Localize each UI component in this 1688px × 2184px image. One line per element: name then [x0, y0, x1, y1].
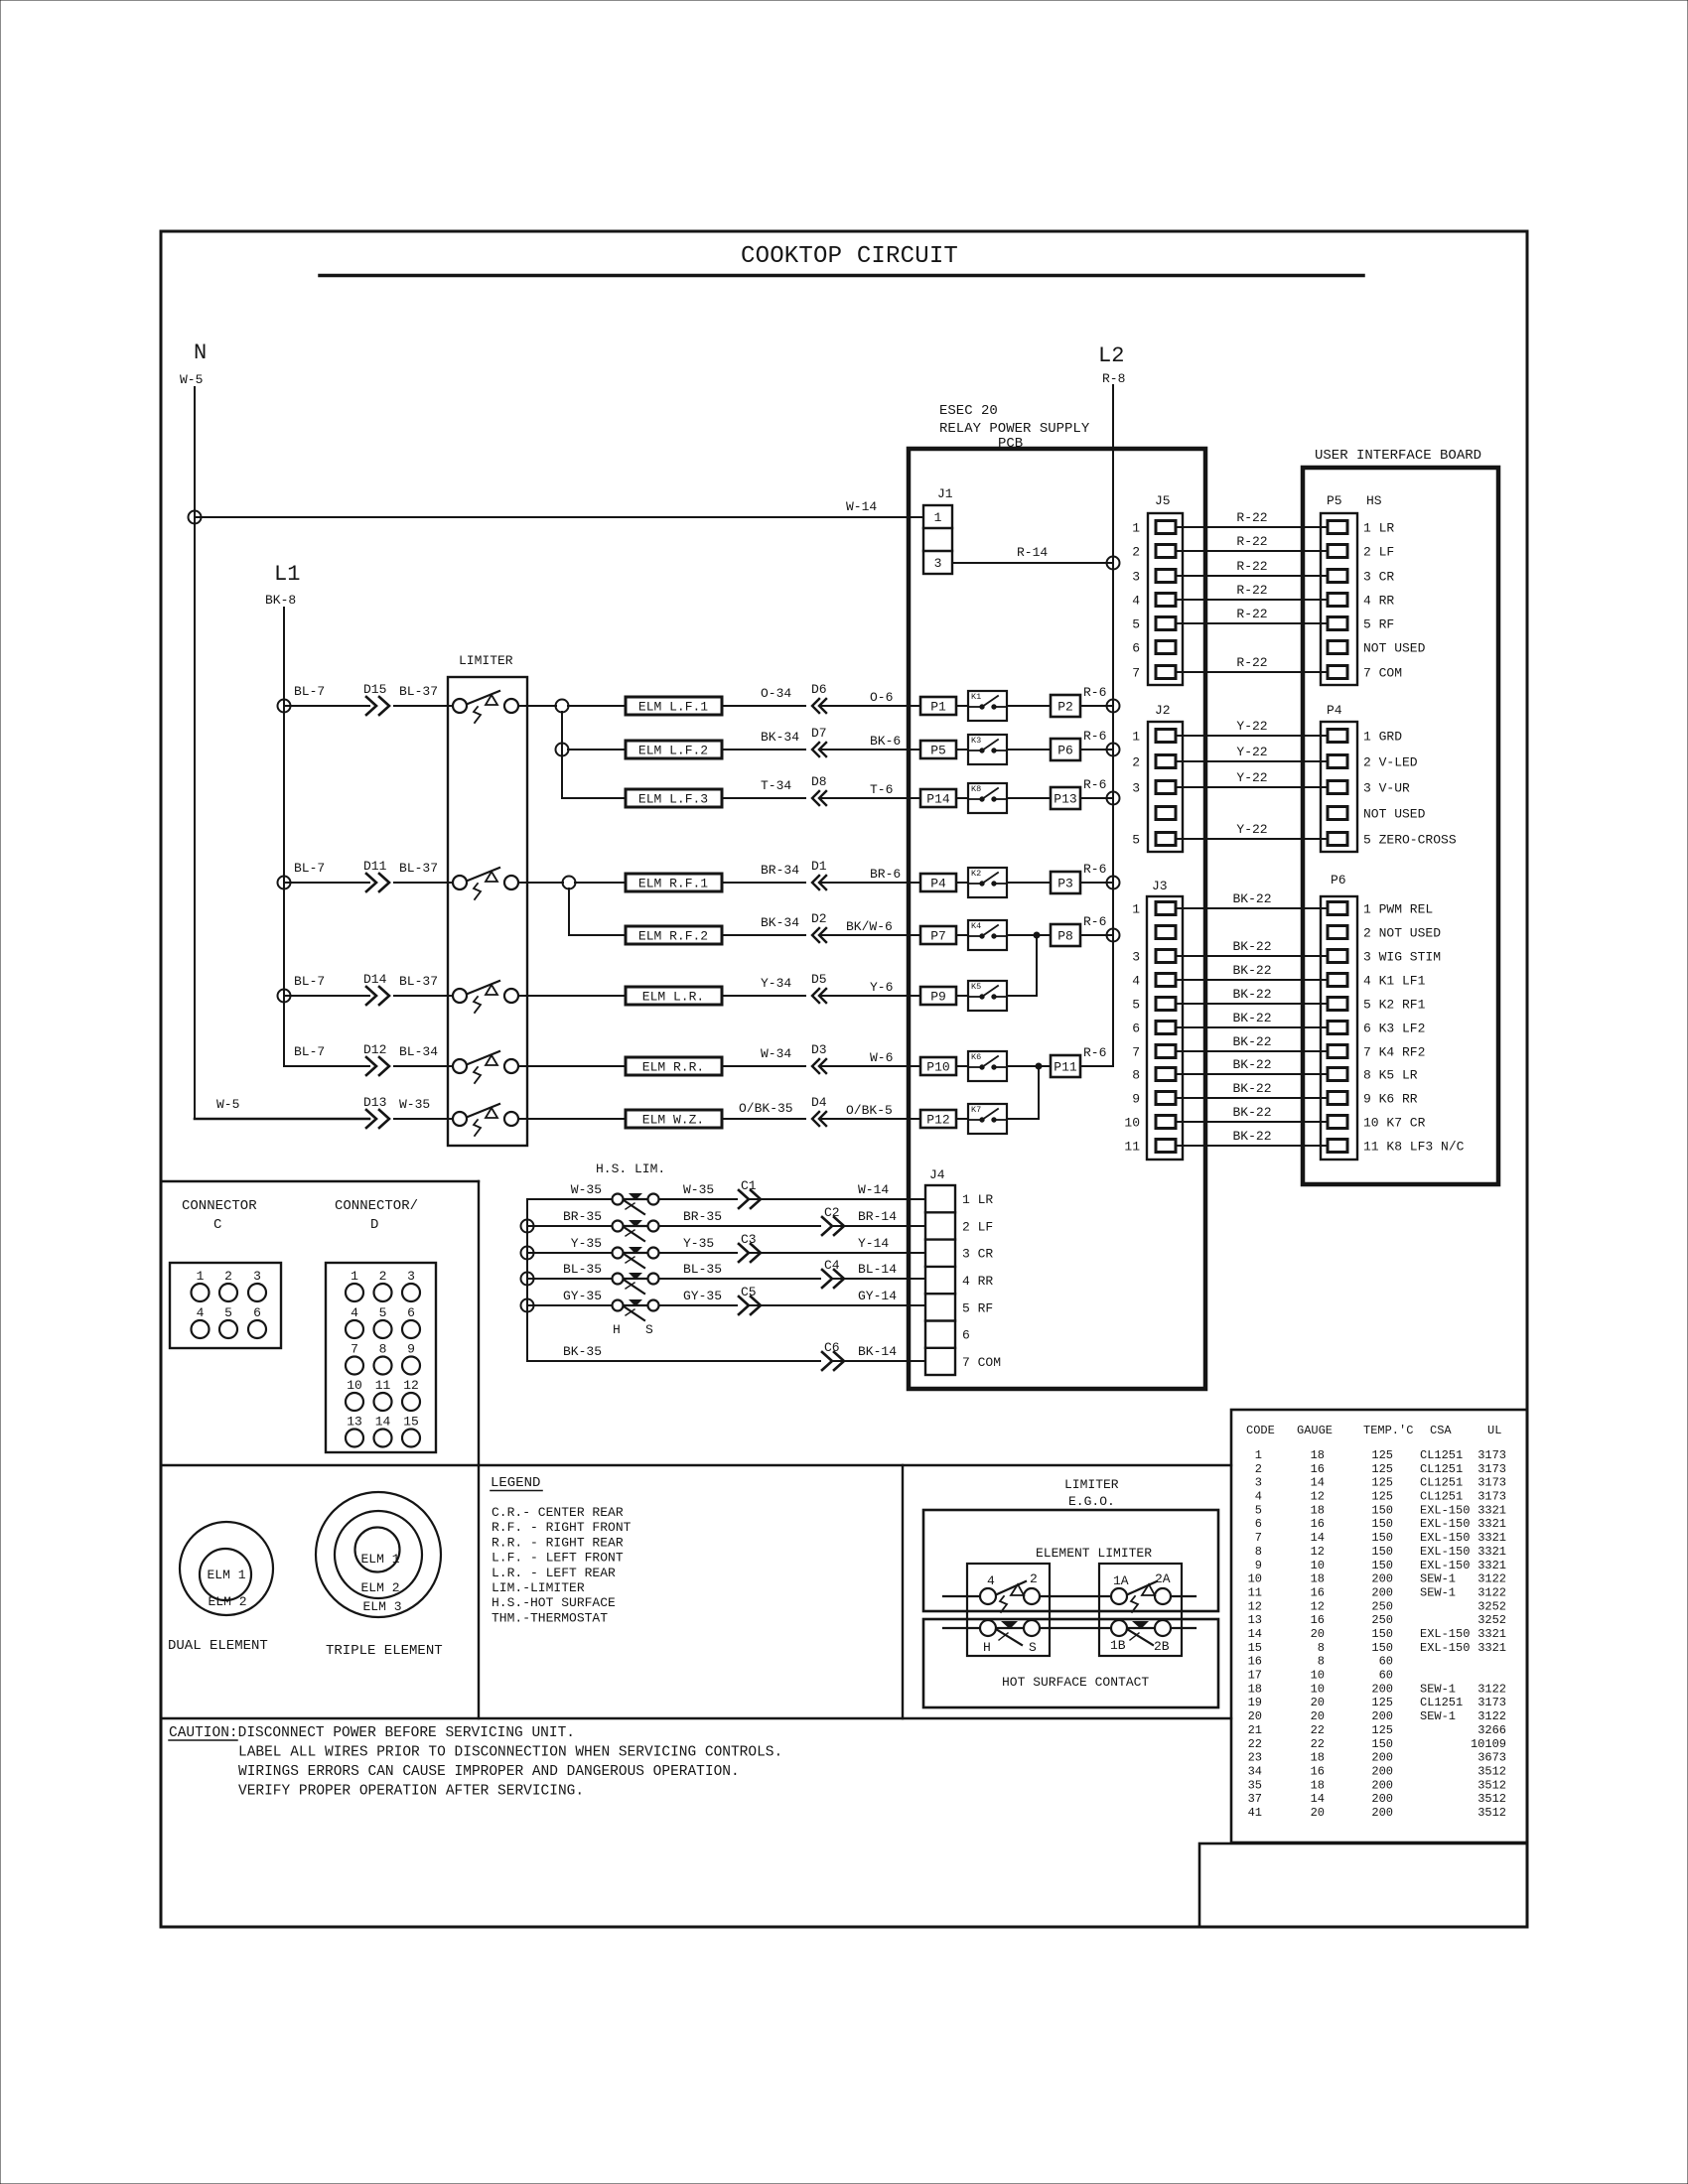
- svg-text:11 K8 LF3 N/C: 11 K8 LF3 N/C: [1363, 1140, 1465, 1155]
- junction dot K7 net: [1036, 1063, 1042, 1069]
- svg-text:SEW-1: SEW-1: [1420, 1709, 1456, 1723]
- svg-text:ELM L.F.3: ELM L.F.3: [638, 792, 708, 807]
- svg-text:P13: P13: [1054, 792, 1076, 807]
- svg-text:D2: D2: [811, 911, 827, 926]
- svg-text:4: 4: [197, 1305, 205, 1320]
- wire BL-14 into J4: [834, 1262, 925, 1279]
- node N junction to W-14: [189, 511, 202, 524]
- wire BR-34 element lead: [722, 863, 805, 883]
- wire code row 37: [1248, 1792, 1506, 1806]
- svg-text:16: 16: [1248, 1655, 1262, 1669]
- svg-text:ELEMENT LIMITER: ELEMENT LIMITER: [1036, 1546, 1152, 1561]
- svg-text:6: 6: [253, 1305, 261, 1320]
- svg-text:17: 17: [1248, 1669, 1262, 1683]
- svg-text:BL-7: BL-7: [294, 684, 325, 699]
- wire code table: [1231, 1410, 1527, 1843]
- svg-text:3122: 3122: [1477, 1572, 1506, 1586]
- inline connector C4: [822, 1258, 844, 1288]
- pin J3-3: [1132, 950, 1176, 965]
- pin J3-9: [1132, 1092, 1176, 1107]
- svg-text:D: D: [370, 1217, 378, 1233]
- svg-text:BK-22: BK-22: [1232, 891, 1271, 906]
- svg-text:T-34: T-34: [761, 778, 791, 793]
- svg-text:D8: D8: [811, 774, 827, 789]
- svg-text:R-8: R-8: [1102, 371, 1125, 386]
- connector P5: [1321, 493, 1382, 685]
- wire code row 2: [1255, 1462, 1506, 1476]
- svg-text:BL-37: BL-37: [399, 974, 438, 989]
- pin D-14: [374, 1415, 392, 1447]
- wire W-14 into J4: [751, 1182, 925, 1199]
- wire BR-35 switch to connector C2: [659, 1209, 820, 1226]
- svg-text:1: 1: [1132, 902, 1140, 917]
- pin P6-4 4 K1 LF1: [1328, 974, 1426, 989]
- svg-text:3 CR: 3 CR: [1363, 570, 1394, 585]
- svg-text:DUAL ELEMENT: DUAL ELEMENT: [168, 1638, 268, 1654]
- node branch LF2: [556, 744, 569, 756]
- svg-text:200: 200: [1371, 1806, 1393, 1820]
- pin P6-2 2 NOT USED: [1328, 926, 1441, 941]
- wire W-35 switch to connector C1: [659, 1182, 737, 1199]
- element box ELM L.F.1: [626, 697, 722, 715]
- node R-6 junction on bus at P6: [1107, 744, 1120, 756]
- LIMITER box: [448, 653, 527, 1146]
- pin P6-8 8 K5 LR: [1328, 1068, 1418, 1083]
- svg-text:6 K3 LF2: 6 K3 LF2: [1363, 1022, 1425, 1036]
- svg-text:150: 150: [1371, 1641, 1393, 1655]
- wire code row 10: [1248, 1572, 1506, 1586]
- svg-text:150: 150: [1371, 1627, 1393, 1641]
- wire Y-22 J2-5 to P4-5: [1176, 822, 1328, 839]
- svg-text:D1: D1: [811, 859, 827, 874]
- svg-text:16: 16: [1311, 1613, 1325, 1627]
- svg-text:11: 11: [375, 1378, 391, 1393]
- wire node A to ELM L.F.1: [568, 705, 626, 707]
- svg-text:200: 200: [1371, 1778, 1393, 1792]
- pin D-3: [402, 1269, 420, 1301]
- svg-text:200: 200: [1371, 1764, 1393, 1778]
- svg-text:BL-34: BL-34: [399, 1044, 438, 1059]
- svg-text:P6: P6: [1331, 873, 1346, 887]
- wire BR-35 from bus: [527, 1209, 612, 1226]
- svg-text:P9: P9: [930, 990, 946, 1005]
- element box ELM L.F.2: [626, 741, 722, 758]
- wire node D to ELM R.F.1: [575, 882, 626, 884]
- svg-text:200: 200: [1371, 1572, 1393, 1586]
- legend block: [491, 1475, 632, 1625]
- element limiter switch 4-2: [980, 1571, 1040, 1612]
- wire P14 to relay K8: [956, 797, 968, 799]
- title block box: [1199, 1843, 1527, 1927]
- svg-text:1: 1: [1132, 730, 1140, 745]
- svg-text:7 COM: 7 COM: [962, 1355, 1001, 1370]
- svg-text:BK-22: BK-22: [1232, 1081, 1271, 1096]
- svg-text:LIM.-LIMITER: LIM.-LIMITER: [492, 1580, 585, 1595]
- pin J5-3: [1132, 570, 1176, 585]
- svg-text:R.R. - RIGHT REAR: R.R. - RIGHT REAR: [492, 1535, 624, 1550]
- svg-text:3122: 3122: [1477, 1585, 1506, 1599]
- pin J5-7: [1132, 666, 1176, 681]
- svg-text:EXL-150: EXL-150: [1420, 1545, 1470, 1559]
- svg-text:16: 16: [1311, 1585, 1325, 1599]
- svg-text:EXL-150: EXL-150: [1420, 1641, 1470, 1655]
- wire code row 6: [1255, 1517, 1506, 1531]
- svg-text:4: 4: [1132, 974, 1140, 989]
- svg-text:1: 1: [351, 1269, 358, 1284]
- pin P5-5 5 RF: [1328, 617, 1394, 632]
- inline connector D3: [811, 1042, 827, 1073]
- pin D-8: [374, 1342, 392, 1375]
- node H.S. bus Y-35: [521, 1247, 534, 1260]
- svg-text:THM.-THERMOSTAT: THM.-THERMOSTAT: [492, 1610, 608, 1625]
- svg-text:BK-22: BK-22: [1232, 1057, 1271, 1072]
- terminal P4: [920, 874, 956, 891]
- svg-text:BK-34: BK-34: [761, 915, 799, 930]
- relay K1: [968, 691, 1007, 721]
- pin D-11: [374, 1378, 392, 1411]
- svg-text:COOKTOP CIRCUIT: COOKTOP CIRCUIT: [741, 243, 958, 270]
- svg-text:H.S.-HOT SURFACE: H.S.-HOT SURFACE: [492, 1595, 616, 1610]
- svg-text:C4: C4: [824, 1258, 840, 1273]
- svg-text:3252: 3252: [1477, 1599, 1506, 1613]
- pin J3-2: [1156, 926, 1176, 939]
- page border frame: [161, 231, 1527, 1927]
- node L1 branch for row ELM L.R.: [278, 990, 291, 1003]
- svg-text:CL1251: CL1251: [1420, 1696, 1463, 1709]
- svg-text:3512: 3512: [1477, 1778, 1506, 1792]
- svg-text:12: 12: [1311, 1599, 1325, 1613]
- element limiter box: [923, 1510, 1218, 1611]
- wire BK-22 J3-10 to P6-10: [1176, 1105, 1328, 1122]
- svg-text:H: H: [613, 1322, 621, 1337]
- node R-6 junction on bus at P8: [1107, 929, 1120, 942]
- wire O-6 into PCB: [820, 690, 920, 706]
- wire BK-6 into PCB: [820, 734, 920, 750]
- svg-text:5: 5: [1255, 1503, 1262, 1517]
- svg-text:10: 10: [347, 1378, 362, 1393]
- pin P5-7 7 COM: [1328, 666, 1402, 681]
- wire code row 11: [1248, 1585, 1506, 1599]
- wire code row 35: [1248, 1778, 1506, 1792]
- svg-text:Y-22: Y-22: [1236, 745, 1267, 759]
- svg-text:10: 10: [1311, 1669, 1325, 1683]
- svg-text:BK-22: BK-22: [1232, 1129, 1271, 1144]
- svg-text:5 ZERO-CROSS: 5 ZERO-CROSS: [1363, 833, 1457, 848]
- svg-text:P4: P4: [930, 877, 946, 891]
- wire W-35 from bus: [527, 1182, 612, 1199]
- svg-text:P1: P1: [930, 700, 946, 715]
- pin P5-1 1 LR: [1328, 521, 1394, 536]
- svg-text:14: 14: [1311, 1476, 1325, 1490]
- wire BK-22 J3-4 to P6-4: [1176, 963, 1328, 980]
- wire code row 21: [1248, 1723, 1506, 1737]
- wire P4 to relay K2: [956, 882, 968, 884]
- node R-6 junction on bus at P3: [1107, 877, 1120, 889]
- svg-text:S: S: [1029, 1640, 1037, 1655]
- svg-text:8: 8: [1318, 1655, 1325, 1669]
- wire O/BK-5 into PCB: [820, 1103, 920, 1119]
- svg-text:CL1251: CL1251: [1420, 1448, 1463, 1462]
- svg-text:R-22: R-22: [1236, 559, 1267, 574]
- pin C-2: [219, 1269, 237, 1301]
- svg-text:Y-22: Y-22: [1236, 822, 1267, 837]
- pin D-15: [402, 1415, 420, 1447]
- wire relay K6 to P11: [1007, 1065, 1051, 1067]
- wire Y-35 from bus: [527, 1236, 612, 1253]
- pin J3-5: [1132, 998, 1176, 1013]
- svg-text:Y-6: Y-6: [870, 980, 893, 995]
- svg-text:BK-22: BK-22: [1232, 1011, 1271, 1025]
- svg-text:3512: 3512: [1477, 1792, 1506, 1806]
- svg-text:ELM R.R.: ELM R.R.: [642, 1060, 704, 1075]
- svg-text:125: 125: [1371, 1476, 1393, 1490]
- wire branch corner to ELM R.F.2: [569, 934, 626, 936]
- pin P5-6 NOT USED: [1328, 641, 1426, 656]
- svg-text:2: 2: [1255, 1462, 1262, 1476]
- svg-text:18: 18: [1311, 1751, 1325, 1765]
- connector J4: [925, 1167, 955, 1375]
- limiter E.G.O. heading: [1064, 1477, 1119, 1509]
- connector J2: [1148, 703, 1183, 852]
- svg-text:Y-22: Y-22: [1236, 770, 1267, 785]
- wire R-22 J5-3 to P5-3: [1176, 559, 1328, 576]
- node R-6 junction on bus at P2: [1107, 700, 1120, 713]
- pin J5-4: [1132, 594, 1176, 609]
- limiter thermal switch for ELM R.F.1: [448, 868, 527, 899]
- wire R-6 P6 to L2 bus: [1080, 729, 1113, 750]
- pin P4-3 3 V-UR: [1328, 781, 1410, 796]
- inline connector C6: [822, 1340, 844, 1370]
- svg-text:3173: 3173: [1477, 1448, 1506, 1462]
- svg-text:P7: P7: [930, 929, 946, 944]
- wire code row 8: [1255, 1545, 1506, 1559]
- svg-text:23: 23: [1248, 1751, 1262, 1765]
- svg-text:SEW-1: SEW-1: [1420, 1585, 1456, 1599]
- terminal P11: [1051, 1055, 1080, 1077]
- svg-text:3321: 3321: [1477, 1517, 1506, 1531]
- wire relay K8 to P13: [1007, 797, 1051, 799]
- element box ELM R.F.2: [626, 926, 722, 944]
- node H.S. bus GY-35: [521, 1299, 534, 1312]
- svg-text:R-22: R-22: [1236, 607, 1267, 621]
- svg-text:K7: K7: [971, 1105, 981, 1115]
- svg-text:2: 2: [224, 1269, 232, 1284]
- pin D-9: [402, 1342, 420, 1375]
- pin P5-4 4 RR: [1328, 594, 1394, 609]
- svg-text:200: 200: [1371, 1709, 1393, 1723]
- svg-text:D4: D4: [811, 1095, 827, 1110]
- terminal P5: [920, 741, 956, 758]
- limiter unit enclosure right: [1099, 1564, 1182, 1656]
- svg-text:L.F. - LEFT FRONT: L.F. - LEFT FRONT: [492, 1551, 624, 1566]
- wire BR-6 into PCB: [820, 867, 920, 883]
- svg-text:1: 1: [197, 1269, 205, 1284]
- element limiter switch 1A-2A: [1111, 1571, 1171, 1612]
- svg-text:37: 37: [1248, 1792, 1262, 1806]
- svg-text:CSA: CSA: [1430, 1424, 1452, 1437]
- svg-text:1: 1: [1255, 1448, 1262, 1462]
- wire code row 17: [1248, 1669, 1393, 1683]
- pin J2-5: [1132, 833, 1176, 848]
- wire BK-22 J3-6 to P6-6: [1176, 1011, 1328, 1027]
- svg-text:ELM 1: ELM 1: [207, 1568, 245, 1582]
- legend section divider: [902, 1465, 904, 1718]
- wire code row 15: [1248, 1641, 1506, 1655]
- svg-text:CODE: CODE: [1246, 1424, 1275, 1437]
- svg-text:W-5: W-5: [180, 372, 203, 387]
- wire BK-22 J3-9 to P6-9: [1176, 1081, 1328, 1098]
- wire Y-6 into PCB: [820, 980, 920, 996]
- node R-14 junction on L2 bus: [1107, 557, 1120, 570]
- svg-text:R-6: R-6: [1083, 914, 1106, 929]
- pin P6-6 6 K3 LF2: [1328, 1022, 1425, 1036]
- svg-text:10: 10: [1124, 1116, 1140, 1131]
- wire relay K5 up to P8 net: [1007, 935, 1037, 996]
- svg-text:EXL-150: EXL-150: [1420, 1517, 1470, 1531]
- svg-text:ELM L.F.2: ELM L.F.2: [638, 744, 708, 758]
- svg-text:15: 15: [403, 1415, 419, 1430]
- wire R-6 P2 to L2 bus: [1080, 685, 1113, 706]
- pin C-5: [219, 1305, 237, 1338]
- svg-text:9: 9: [1132, 1092, 1140, 1107]
- svg-text:C: C: [213, 1217, 221, 1233]
- svg-text:LEGEND: LEGEND: [491, 1475, 540, 1491]
- wire code row 3: [1255, 1476, 1506, 1490]
- dual element symbol: [168, 1522, 273, 1654]
- svg-text:D7: D7: [811, 726, 827, 741]
- svg-text:3: 3: [934, 556, 942, 571]
- pin D-10: [346, 1378, 363, 1411]
- node L1 branch for row ELM R.F.1: [278, 877, 291, 889]
- svg-text:125: 125: [1371, 1723, 1393, 1737]
- svg-text:13: 13: [1248, 1613, 1262, 1627]
- svg-text:10: 10: [1311, 1559, 1325, 1572]
- pin C-3: [248, 1269, 266, 1301]
- svg-text:EXL-150: EXL-150: [1420, 1503, 1470, 1517]
- connector J5: [1148, 493, 1183, 685]
- wire BK-22 J3-8 to P6-8: [1176, 1057, 1328, 1074]
- wire code row 23: [1248, 1751, 1506, 1765]
- svg-text:6: 6: [1255, 1517, 1262, 1531]
- inline connector D11: [363, 859, 438, 891]
- hot surface switch H-S: [980, 1620, 1040, 1655]
- svg-text:J5: J5: [1155, 493, 1171, 508]
- wire P5 to relay K3: [956, 749, 968, 751]
- svg-text:10 K7 CR: 10 K7 CR: [1363, 1116, 1426, 1131]
- inline connector D13: [363, 1095, 430, 1128]
- node branch LF: [556, 700, 569, 713]
- pin J2-1: [1132, 730, 1176, 745]
- svg-text:O-34: O-34: [761, 686, 791, 701]
- node L1 label: [265, 562, 300, 608]
- inline connector D1: [811, 859, 827, 889]
- wire code row 20: [1248, 1709, 1506, 1723]
- svg-text:2: 2: [379, 1269, 387, 1284]
- svg-text:W-35: W-35: [399, 1097, 430, 1112]
- svg-text:CONNECTOR/: CONNECTOR/: [335, 1198, 418, 1214]
- node H.S. bus BL-35: [521, 1273, 534, 1286]
- svg-text:CL1251: CL1251: [1420, 1462, 1463, 1476]
- svg-text:1 GRD: 1 GRD: [1363, 730, 1402, 745]
- hot-surface limiter switch BR-35: [613, 1220, 659, 1241]
- svg-text:P10: P10: [926, 1060, 949, 1075]
- svg-text:9: 9: [1255, 1559, 1262, 1572]
- wire GY-14 into J4: [751, 1289, 925, 1305]
- svg-text:D3: D3: [811, 1042, 827, 1057]
- svg-text:BR-6: BR-6: [870, 867, 901, 882]
- svg-text:2 LF: 2 LF: [962, 1219, 993, 1234]
- svg-text:R.F. - RIGHT FRONT: R.F. - RIGHT FRONT: [492, 1520, 632, 1535]
- wire relay K3 to P6: [1007, 749, 1051, 751]
- wire T-34 element lead: [722, 778, 805, 798]
- svg-text:14: 14: [1248, 1627, 1262, 1641]
- wire code row 1: [1255, 1448, 1506, 1462]
- node L2 label: [1098, 343, 1125, 386]
- wire Y-35 switch to connector C3: [659, 1236, 737, 1253]
- wire BL-7 feeder row ELM R.F.1: [284, 861, 448, 883]
- svg-text:R-22: R-22: [1236, 655, 1267, 670]
- wire P10 to relay K6: [956, 1065, 968, 1067]
- svg-text:3321: 3321: [1477, 1503, 1506, 1517]
- svg-text:18: 18: [1311, 1778, 1325, 1792]
- svg-text:H.S. LIM.: H.S. LIM.: [596, 1161, 665, 1176]
- svg-text:3122: 3122: [1477, 1682, 1506, 1696]
- relay K5: [968, 981, 1007, 1011]
- svg-text:3252: 3252: [1477, 1613, 1506, 1627]
- wire branch corner to ELM L.F.3: [562, 797, 626, 799]
- svg-text:4: 4: [351, 1305, 358, 1320]
- svg-text:3 V-UR: 3 V-UR: [1363, 781, 1410, 796]
- connector D: [326, 1198, 436, 1452]
- hot-surface limiter switch Y-35: [613, 1247, 659, 1268]
- svg-text:3512: 3512: [1477, 1764, 1506, 1778]
- svg-text:SEW-1: SEW-1: [1420, 1572, 1456, 1586]
- section bottom divider: [163, 1717, 1231, 1719]
- svg-text:P6: P6: [1057, 744, 1073, 758]
- svg-text:5 K2 RF1: 5 K2 RF1: [1363, 998, 1426, 1013]
- element box ELM L.R.: [626, 987, 722, 1005]
- wire code row 5: [1255, 1503, 1506, 1517]
- svg-text:LIMITER: LIMITER: [459, 653, 513, 668]
- wire L2 vertical bus R-8 / R-6: [1112, 385, 1114, 1066]
- svg-text:BL-7: BL-7: [294, 974, 325, 989]
- svg-text:34: 34: [1248, 1764, 1262, 1778]
- pin P4-5 5 ZERO-CROSS: [1328, 833, 1457, 848]
- svg-text:BL-37: BL-37: [399, 861, 438, 876]
- limiter unit enclosure left: [967, 1564, 1050, 1656]
- svg-text:GY-14: GY-14: [858, 1289, 897, 1303]
- wire limiter to node D: [527, 882, 563, 884]
- element box ELM R.R.: [626, 1057, 722, 1075]
- terminal P10: [920, 1057, 956, 1075]
- wire R-22 J5-1 to P5-1: [1176, 510, 1328, 527]
- pin J5-5: [1132, 617, 1176, 632]
- wire code row 18: [1248, 1682, 1506, 1696]
- terminal P7: [920, 926, 956, 944]
- svg-text:W-14: W-14: [858, 1182, 889, 1197]
- wire relay K2 to P3: [1007, 882, 1051, 884]
- svg-text:BK/W-6: BK/W-6: [846, 919, 893, 934]
- wire code row 13: [1248, 1613, 1506, 1627]
- caution note: [169, 1725, 782, 1800]
- svg-text:O/BK-5: O/BK-5: [846, 1103, 893, 1118]
- svg-text:O/BK-35: O/BK-35: [739, 1101, 793, 1116]
- wire code row 16: [1248, 1655, 1393, 1669]
- svg-text:Y-14: Y-14: [858, 1236, 889, 1251]
- pin C-4: [192, 1305, 210, 1338]
- wire P9 to relay K5: [956, 995, 968, 997]
- user interface board outline: [1303, 448, 1498, 1184]
